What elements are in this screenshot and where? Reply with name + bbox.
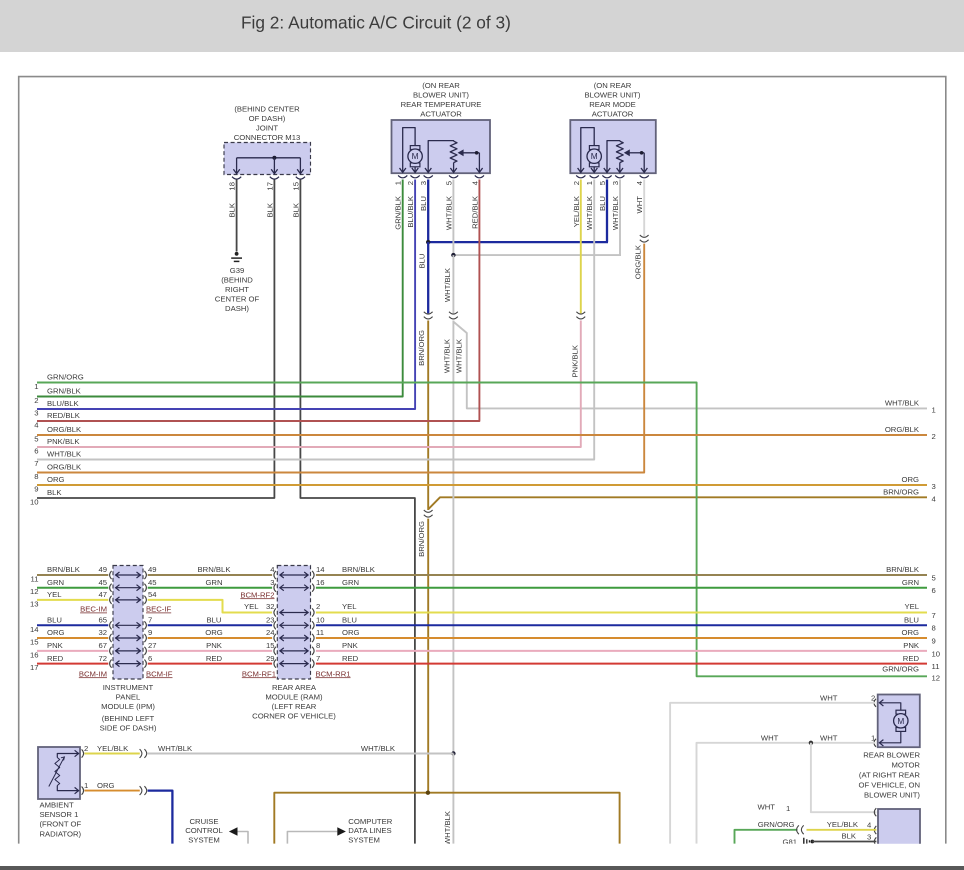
svg-text:7: 7 xyxy=(34,459,38,468)
row6 label xyxy=(34,437,80,455)
svg-text:3: 3 xyxy=(867,833,871,842)
svg-text:REAR MODE: REAR MODE xyxy=(589,100,636,109)
wire row14 BLU xyxy=(30,616,936,634)
svg-text:BLU: BLU xyxy=(418,254,427,269)
svg-text:WHT/BLK: WHT/BLK xyxy=(611,195,620,230)
svg-text:WHT/BLK: WHT/BLK xyxy=(443,267,452,302)
wire row11 BRN/BLK xyxy=(31,565,936,583)
wire RED/BLK temp pin4 to row4 xyxy=(37,180,479,422)
title bar xyxy=(0,0,964,52)
ambient sensor caption xyxy=(40,801,82,839)
svg-text:4: 4 xyxy=(470,180,479,185)
svg-text:YEL/BLK: YEL/BLK xyxy=(572,195,581,227)
wire YEL/BLK lower box pin4 xyxy=(807,820,877,830)
svg-text:45: 45 xyxy=(98,578,107,587)
svg-text:SYSTEM: SYSTEM xyxy=(348,835,380,844)
wire row15 ORG xyxy=(30,628,936,646)
wire GRN/BLK temp pin1 to row2 xyxy=(37,180,403,397)
svg-text:BLOWER UNIT): BLOWER UNIT) xyxy=(864,791,920,800)
wire BLU/BLK temp pin2 to row3 xyxy=(37,180,415,410)
svg-text:49: 49 xyxy=(148,565,157,574)
svg-text:BLU: BLU xyxy=(47,616,62,625)
svg-text:67: 67 xyxy=(98,641,107,650)
svg-text:OF DASH): OF DASH) xyxy=(249,114,286,123)
svg-text:5: 5 xyxy=(598,181,607,185)
svg-text:BLU: BLU xyxy=(419,196,428,211)
svg-text:1: 1 xyxy=(932,405,936,414)
svg-text:RED/BLK: RED/BLK xyxy=(470,195,479,229)
svg-text:WHT/BLK: WHT/BLK xyxy=(158,744,193,753)
svg-text:CENTER OF: CENTER OF xyxy=(215,295,260,304)
svg-text:RIGHT: RIGHT xyxy=(225,285,249,294)
svg-text:1: 1 xyxy=(786,804,790,813)
svg-text:MOTOR: MOTOR xyxy=(892,761,921,770)
svg-text:GRN/BLK: GRN/BLK xyxy=(394,195,403,230)
svg-text:BRN/BLK: BRN/BLK xyxy=(47,565,81,574)
svg-text:JOINT: JOINT xyxy=(256,124,279,133)
svg-text:15: 15 xyxy=(291,182,300,191)
svg-text:ORG/BLK: ORG/BLK xyxy=(47,425,82,434)
svg-text:GRN/ORG: GRN/ORG xyxy=(758,820,795,829)
svg-text:BRN/BLK: BRN/BLK xyxy=(198,565,232,574)
instrument panel module (IPM) box xyxy=(113,566,143,680)
svg-text:BLK: BLK xyxy=(228,202,237,217)
svg-text:1: 1 xyxy=(871,733,875,742)
wire WHT motor pin2 xyxy=(670,693,875,843)
svg-text:ORG: ORG xyxy=(901,628,919,637)
svg-text:11: 11 xyxy=(316,628,324,637)
svg-text:CONNECTOR M13: CONNECTOR M13 xyxy=(234,133,301,142)
svg-text:WHT/BLK: WHT/BLK xyxy=(361,744,396,753)
svg-text:WHT/BLK: WHT/BLK xyxy=(454,338,463,373)
svg-text:PNK: PNK xyxy=(342,641,359,650)
wire row5 ORG/BLK xyxy=(34,425,936,443)
svg-text:ORG: ORG xyxy=(47,628,65,637)
svg-text:PNK: PNK xyxy=(903,641,920,650)
svg-text:M: M xyxy=(412,151,419,161)
svg-text:AMBIENT: AMBIENT xyxy=(40,801,74,810)
svg-text:14: 14 xyxy=(316,565,325,574)
svg-text:4: 4 xyxy=(932,494,937,503)
inline connector GRN/ORG to YEL/BLK xyxy=(801,825,803,834)
svg-text:1: 1 xyxy=(84,781,88,790)
svg-text:1: 1 xyxy=(394,181,403,185)
svg-text:4: 4 xyxy=(635,180,644,185)
svg-text:GRN/ORG: GRN/ORG xyxy=(47,373,84,382)
svg-text:WHT: WHT xyxy=(820,693,838,702)
svg-text:RED: RED xyxy=(206,654,223,663)
svg-text:SENSOR 1: SENSOR 1 xyxy=(40,810,79,819)
svg-text:BCM-IM: BCM-IM xyxy=(79,669,107,678)
svg-text:BCM-IF: BCM-IF xyxy=(146,669,173,678)
svg-text:8: 8 xyxy=(932,624,936,633)
wire BRN/ORG bottom net xyxy=(274,791,619,844)
rear temperature actuator xyxy=(392,120,491,178)
svg-text:ACTUATOR: ACTUATOR xyxy=(592,110,634,119)
svg-text:BLOWER UNIT): BLOWER UNIT) xyxy=(413,91,469,100)
svg-text:5: 5 xyxy=(932,573,936,582)
wire BRN/ORG branch to right edge row4 xyxy=(428,488,936,510)
svg-text:OF VEHICLE, ON: OF VEHICLE, ON xyxy=(858,781,920,790)
svg-text:2: 2 xyxy=(316,602,320,611)
wire BLK pin17 xyxy=(37,180,274,499)
svg-text:18: 18 xyxy=(228,182,237,191)
svg-text:BLU: BLU xyxy=(904,616,919,625)
wire row1 GRN/ORG xyxy=(34,373,940,683)
wire WHT/BLK mode pin1 to row7 xyxy=(37,180,594,460)
wire YEL/BLK ambient pin2 xyxy=(84,744,140,753)
svg-text:ORG: ORG xyxy=(97,781,115,790)
row4 label xyxy=(34,411,81,429)
svg-text:PANEL: PANEL xyxy=(116,693,141,702)
svg-text:BLK: BLK xyxy=(841,832,856,841)
svg-text:2: 2 xyxy=(572,181,581,185)
svg-text:16: 16 xyxy=(316,578,325,587)
svg-text:BLU: BLU xyxy=(342,616,357,625)
svg-text:3: 3 xyxy=(34,409,38,418)
wire row17 RED xyxy=(30,654,940,672)
svg-text:WHT/BLK: WHT/BLK xyxy=(885,399,920,408)
svg-text:5: 5 xyxy=(445,181,454,185)
svg-text:CORNER OF VEHICLE): CORNER OF VEHICLE) xyxy=(252,712,336,721)
svg-text:WHT: WHT xyxy=(820,733,838,742)
wire BRN/ORG vertical xyxy=(417,321,428,511)
IPM caption xyxy=(100,683,157,733)
svg-text:(BEHIND LEFT: (BEHIND LEFT xyxy=(102,714,155,723)
svg-text:BCM-RR1: BCM-RR1 xyxy=(316,669,351,678)
svg-text:47: 47 xyxy=(98,590,107,599)
svg-text:32: 32 xyxy=(98,628,107,637)
svg-text:29: 29 xyxy=(266,654,275,663)
wire row12 GRN xyxy=(30,578,936,596)
wire WHT/BLK temp pin5 / mode pin3 xyxy=(443,180,621,314)
svg-text:3: 3 xyxy=(419,181,428,185)
svg-text:GRN: GRN xyxy=(342,578,359,587)
svg-text:Fig 2: Automatic A/C Circuit (: Fig 2: Automatic A/C Circuit (2 of 3) xyxy=(241,13,511,33)
svg-text:17: 17 xyxy=(265,182,274,191)
svg-text:32: 32 xyxy=(266,602,275,611)
svg-text:4: 4 xyxy=(34,421,39,430)
svg-text:ORG: ORG xyxy=(342,628,360,637)
inline connector BLU to BRN/ORG xyxy=(424,312,433,314)
svg-text:11: 11 xyxy=(932,662,940,671)
svg-text:YEL: YEL xyxy=(244,602,259,611)
svg-text:2: 2 xyxy=(34,396,38,405)
svg-text:3: 3 xyxy=(611,181,620,185)
svg-text:GRN: GRN xyxy=(902,578,919,587)
svg-text:BRN/ORG: BRN/ORG xyxy=(883,488,919,497)
svg-text:BLOWER UNIT): BLOWER UNIT) xyxy=(585,91,641,100)
svg-text:WHT/BLK: WHT/BLK xyxy=(47,450,82,459)
svg-text:ACTUATOR: ACTUATOR xyxy=(420,110,462,119)
svg-text:REAR TEMPERATURE: REAR TEMPERATURE xyxy=(401,100,482,109)
svg-text:REAR AREA: REAR AREA xyxy=(272,683,317,692)
svg-text:G39: G39 xyxy=(230,266,245,275)
wire ORG/BLK to row8 xyxy=(37,244,644,473)
svg-text:3: 3 xyxy=(932,482,936,491)
svg-text:BRN/BLK: BRN/BLK xyxy=(342,565,376,574)
svg-text:2: 2 xyxy=(932,432,936,441)
svg-text:DATA LINES: DATA LINES xyxy=(348,826,391,835)
svg-text:COMPUTER: COMPUTER xyxy=(348,817,392,826)
svg-text:ORG/BLK: ORG/BLK xyxy=(885,425,920,434)
svg-text:8: 8 xyxy=(316,641,320,650)
wire PNK/BLK to row6 xyxy=(37,321,581,448)
row2 label xyxy=(34,387,81,405)
svg-text:G81: G81 xyxy=(782,837,797,846)
svg-text:BLU/BLK: BLU/BLK xyxy=(47,399,79,408)
svg-text:(AT RIGHT REAR: (AT RIGHT REAR xyxy=(859,771,921,780)
svg-text:12: 12 xyxy=(932,674,941,683)
svg-text:ORG/BLK: ORG/BLK xyxy=(47,463,82,472)
svg-text:ORG: ORG xyxy=(901,475,919,484)
rear mode actuator caption xyxy=(585,81,641,119)
svg-text:4: 4 xyxy=(867,821,872,830)
svg-text:YEL/BLK: YEL/BLK xyxy=(97,744,129,753)
wire BLU temp pin3 / mode pin5 xyxy=(418,180,608,314)
svg-text:BEC-IM: BEC-IM xyxy=(80,605,107,614)
svg-text:M: M xyxy=(591,151,598,161)
RAM caption xyxy=(252,683,336,721)
wire BLK lower box pin3 xyxy=(812,832,876,842)
rear area module (RAM) box xyxy=(277,566,310,680)
inline connector BRN/ORG xyxy=(424,510,433,512)
svg-text:BLK: BLK xyxy=(47,488,62,497)
wire ORG ambient pin1 xyxy=(84,781,140,791)
svg-text:SYSTEM: SYSTEM xyxy=(188,835,220,844)
wire BLU to bottom xyxy=(148,791,173,844)
svg-text:WHT: WHT xyxy=(635,196,644,214)
svg-text:9: 9 xyxy=(932,636,936,645)
computer data lines lead xyxy=(287,827,346,844)
wire row16 PNK xyxy=(30,641,940,659)
row7 label xyxy=(34,450,82,468)
wire GRN/ORG to connector xyxy=(735,820,798,844)
svg-text:2: 2 xyxy=(871,693,875,702)
wire BRN/ORG to junction xyxy=(417,519,428,793)
svg-text:(FRONT OF: (FRONT OF xyxy=(40,820,82,829)
svg-text:BLK: BLK xyxy=(265,202,274,217)
svg-text:CONTROL: CONTROL xyxy=(185,826,223,835)
wire row9 ORG xyxy=(34,475,936,493)
svg-text:27: 27 xyxy=(148,641,157,650)
svg-text:RADIATOR): RADIATOR) xyxy=(40,829,82,838)
wire BLK pin18 to G39 xyxy=(228,180,237,252)
svg-text:10: 10 xyxy=(30,498,39,507)
svg-text:BRN/BLK: BRN/BLK xyxy=(886,565,920,574)
joint connector M13 xyxy=(224,143,311,180)
svg-text:YEL: YEL xyxy=(342,602,357,611)
svg-text:BRN/ORG: BRN/ORG xyxy=(417,521,426,557)
ground G81 xyxy=(782,837,814,846)
wire row13 YEL xyxy=(30,590,936,620)
row10 label xyxy=(30,488,62,506)
wire WHT to lower connector pin1 xyxy=(757,743,876,813)
svg-text:YEL/BLK: YEL/BLK xyxy=(827,820,859,829)
svg-text:RED: RED xyxy=(47,654,64,663)
svg-text:PNK: PNK xyxy=(206,641,223,650)
svg-text:RED/BLK: RED/BLK xyxy=(47,411,81,420)
svg-text:BLU/BLK: BLU/BLK xyxy=(406,195,415,227)
wire YEL/BLK mode pin2 xyxy=(572,180,581,314)
svg-text:ORG: ORG xyxy=(205,628,223,637)
rear mode actuator xyxy=(570,120,656,178)
inline connector WHT/BLK xyxy=(449,312,458,314)
svg-text:6: 6 xyxy=(932,586,936,595)
joint connector M13 caption xyxy=(234,105,301,143)
rear temperature actuator caption xyxy=(401,81,482,119)
inline connector ORG to BLU xyxy=(140,786,142,795)
computer data lines caption xyxy=(348,817,392,844)
svg-text:WHT: WHT xyxy=(757,803,775,812)
svg-text:7: 7 xyxy=(316,654,320,663)
svg-text:6: 6 xyxy=(148,654,152,663)
svg-text:WHT/BLK: WHT/BLK xyxy=(442,338,451,373)
ambient sensor 1 xyxy=(38,747,84,799)
svg-text:7: 7 xyxy=(932,611,936,620)
wire WHT/BLK to junction xyxy=(148,744,454,753)
svg-text:15: 15 xyxy=(266,641,275,650)
svg-text:GRN/ORG: GRN/ORG xyxy=(882,665,919,674)
svg-text:YEL: YEL xyxy=(47,590,62,599)
cruise control system caption xyxy=(185,817,223,844)
wire WHT mode pin4 xyxy=(635,180,644,237)
svg-text:PNK/BLK: PNK/BLK xyxy=(570,344,579,377)
svg-text:SIDE OF DASH): SIDE OF DASH) xyxy=(100,724,157,733)
svg-text:BCM-RF2: BCM-RF2 xyxy=(240,590,274,599)
svg-text:9: 9 xyxy=(148,628,152,637)
svg-text:1: 1 xyxy=(585,181,594,185)
svg-text:49: 49 xyxy=(98,565,107,574)
svg-text:BLU: BLU xyxy=(207,616,222,625)
wire WHT/BLK long vertical xyxy=(442,321,455,846)
svg-text:6: 6 xyxy=(34,447,38,456)
svg-text:GRN/BLK: GRN/BLK xyxy=(47,387,82,396)
svg-text:10: 10 xyxy=(932,649,941,658)
svg-text:PNK/BLK: PNK/BLK xyxy=(47,437,80,446)
wire WHT motor pin1 xyxy=(697,733,876,843)
svg-text:BCM-RF1: BCM-RF1 xyxy=(242,669,276,678)
cruise control lead xyxy=(229,827,248,844)
svg-text:2: 2 xyxy=(406,181,415,185)
svg-text:WHT/BLK: WHT/BLK xyxy=(445,195,454,230)
svg-text:WHT/BLK: WHT/BLK xyxy=(443,810,452,845)
svg-text:(ON REAR: (ON REAR xyxy=(594,81,632,90)
svg-text:8: 8 xyxy=(34,472,38,481)
svg-text:72: 72 xyxy=(98,654,107,663)
svg-text:54: 54 xyxy=(148,590,157,599)
svg-text:YEL: YEL xyxy=(904,602,919,611)
svg-text:ORG/BLK: ORG/BLK xyxy=(634,244,643,279)
svg-text:(LEFT REAR: (LEFT REAR xyxy=(272,702,317,711)
wire BLK pin15 xyxy=(291,180,415,844)
svg-text:7: 7 xyxy=(148,616,152,625)
row3 label xyxy=(34,399,79,417)
svg-text:BLK: BLK xyxy=(291,202,300,217)
inline connector YEL/BLK to PNK/BLK xyxy=(576,312,585,314)
svg-text:10: 10 xyxy=(316,616,325,625)
wire WHT/BLK branch to right edge row1 xyxy=(454,322,936,414)
svg-text:REAR BLOWER: REAR BLOWER xyxy=(863,751,920,760)
svg-text:65: 65 xyxy=(98,616,107,625)
rear blower motor xyxy=(874,695,920,748)
svg-text:(BEHIND CENTER: (BEHIND CENTER xyxy=(234,105,300,114)
svg-text:GRN: GRN xyxy=(47,578,64,587)
svg-text:(ON REAR: (ON REAR xyxy=(422,81,460,90)
svg-text:BRN/ORG: BRN/ORG xyxy=(417,330,426,366)
svg-text:WHT/BLK: WHT/BLK xyxy=(585,195,594,230)
inline connector YEL/BLK to WHT/BLK xyxy=(140,749,142,758)
svg-text:MODULE (IPM): MODULE (IPM) xyxy=(101,702,155,711)
svg-text:PNK: PNK xyxy=(47,641,64,650)
rear blower resistor connector box xyxy=(874,808,920,849)
svg-text:MODULE (RAM): MODULE (RAM) xyxy=(265,693,323,702)
svg-text:23: 23 xyxy=(266,616,275,625)
svg-text:CRUISE: CRUISE xyxy=(189,817,218,826)
svg-text:DASH): DASH) xyxy=(225,304,249,313)
bottom divider bar xyxy=(0,866,964,870)
svg-text:45: 45 xyxy=(148,578,157,587)
svg-text:2: 2 xyxy=(84,744,88,753)
svg-text:GRN: GRN xyxy=(205,578,222,587)
row8 label xyxy=(34,463,82,481)
svg-text:ORG: ORG xyxy=(47,475,65,484)
svg-text:INSTRUMENT: INSTRUMENT xyxy=(103,683,154,692)
svg-text:RED: RED xyxy=(342,654,359,663)
svg-text:RED: RED xyxy=(903,654,920,663)
ground G39 xyxy=(215,252,260,313)
inline connector WHT to ORG/BLK xyxy=(640,235,649,237)
svg-text:BEC-IF: BEC-IF xyxy=(146,605,172,614)
svg-text:WHT: WHT xyxy=(761,733,779,742)
svg-text:BLU: BLU xyxy=(598,196,607,211)
rear blower motor caption xyxy=(858,751,920,800)
svg-text:(BEHIND: (BEHIND xyxy=(221,276,253,285)
svg-text:M: M xyxy=(897,716,904,726)
